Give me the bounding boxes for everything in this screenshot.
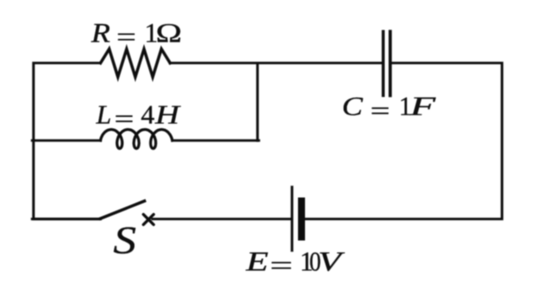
capacitor C plate left xyxy=(382,32,385,96)
battery E long plate xyxy=(291,187,294,251)
svg-text:V: V xyxy=(318,247,346,277)
svg-text:4: 4 xyxy=(141,100,155,129)
wire inductor branch left xyxy=(32,139,100,142)
capacitor C plate right xyxy=(389,32,392,96)
label S xyxy=(113,219,136,262)
svg-text:=: = xyxy=(116,22,136,52)
svg-text:Ω: Ω xyxy=(155,18,182,48)
inductor L coil xyxy=(101,130,173,149)
wire inductor branch right xyxy=(172,139,258,142)
wire left rail + top-left + bottom-left corners xyxy=(34,63,101,219)
svg-text:S: S xyxy=(113,219,136,262)
svg-text:E: E xyxy=(245,246,269,276)
switch S lever xyxy=(101,201,145,219)
svg-text:=: = xyxy=(114,104,134,133)
battery E short thick plate xyxy=(298,201,305,237)
svg-text:C: C xyxy=(342,92,364,121)
label R = 1 Ohm xyxy=(90,18,182,52)
wire inductor riser xyxy=(256,62,259,142)
wire top right segment + right rail + bottom right segment xyxy=(305,63,502,219)
svg-text:L: L xyxy=(95,100,111,129)
wire top middle segment xyxy=(170,62,382,65)
resistor R zigzag xyxy=(101,49,171,77)
switch S contact cross xyxy=(143,214,153,224)
svg-text:H: H xyxy=(154,101,181,130)
svg-text:=: = xyxy=(270,251,293,281)
wire bottom middle segment xyxy=(153,218,291,221)
label C = 1F xyxy=(342,92,436,126)
label E = 10V xyxy=(245,246,346,281)
svg-text:R: R xyxy=(90,19,110,49)
wire bottom left segment xyxy=(32,218,100,221)
svg-text:=: = xyxy=(370,96,390,125)
svg-text:F: F xyxy=(409,92,437,121)
label L = 4H xyxy=(95,100,181,133)
